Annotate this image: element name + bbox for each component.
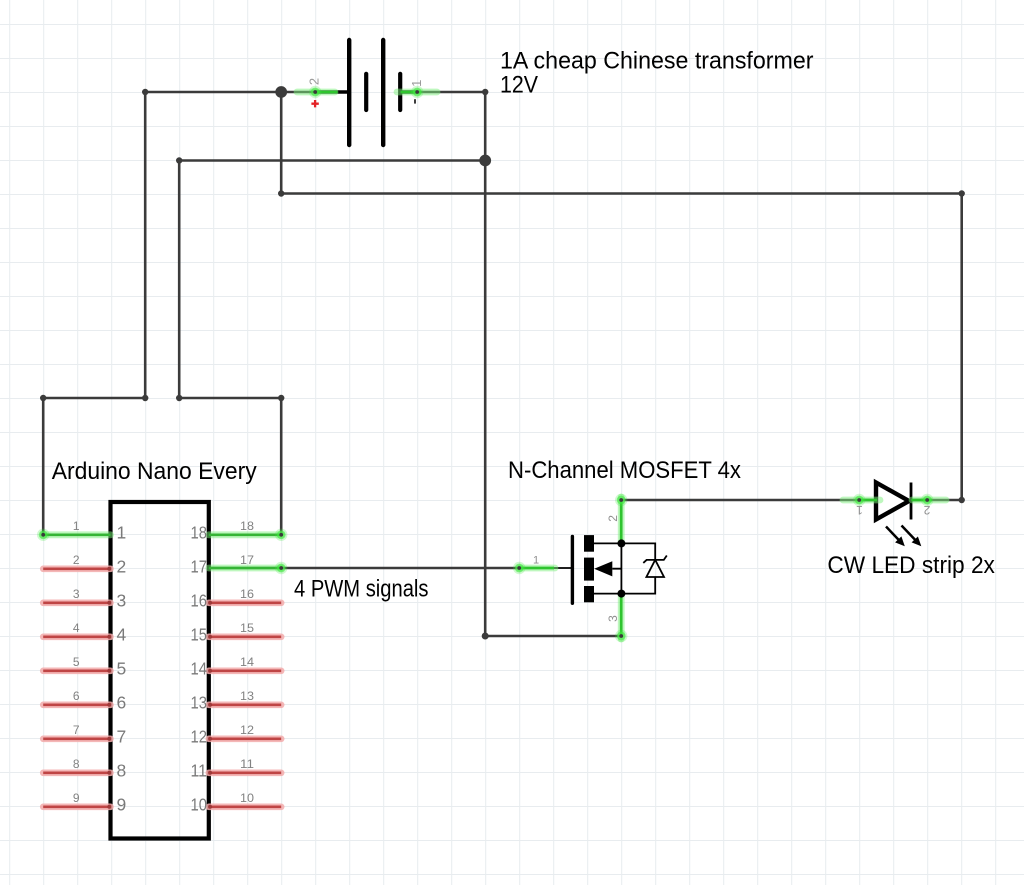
svg-text:14: 14 xyxy=(240,655,254,669)
svg-text:3: 3 xyxy=(117,591,127,611)
MOSFET Q1 source pin highlight (pin 3) xyxy=(615,594,627,643)
svg-text:15: 15 xyxy=(240,621,254,635)
svg-text:2: 2 xyxy=(73,553,80,567)
LED D1 cathode pin highlight (pin 2) xyxy=(911,494,946,506)
Arduino Nano Every U1 body xyxy=(111,502,209,839)
Arduino pin 7 stub (red, unconnected) xyxy=(43,737,111,741)
MOSFET Q1 gate lead xyxy=(519,567,572,569)
Arduino pin 1 stub (green, connected) xyxy=(37,529,111,541)
svg-text:1: 1 xyxy=(856,503,863,517)
MOSFET Q1 substrate arrow xyxy=(594,561,612,576)
svg-text:1: 1 xyxy=(533,555,539,567)
MOSFET Q1 gate bar xyxy=(571,537,574,604)
MOSFET Q1 drain lead xyxy=(594,542,621,544)
svg-text:CW LED strip 2x: CW LED strip 2x xyxy=(827,552,995,579)
battery polarity label - xyxy=(414,99,416,103)
svg-text:16: 16 xyxy=(240,587,254,601)
svg-text:4: 4 xyxy=(73,621,80,635)
svg-text:14: 14 xyxy=(191,659,208,679)
Arduino pin 12 stub (red, unconnected) xyxy=(208,737,281,741)
MOSFET Q1 gate pin highlight (pin 1) xyxy=(513,562,555,574)
svg-text:2: 2 xyxy=(606,515,620,522)
svg-text:3: 3 xyxy=(73,587,80,601)
svg-text:12V: 12V xyxy=(500,71,538,98)
MOSFET Q1 internal vertical xyxy=(612,543,621,593)
svg-text:1: 1 xyxy=(73,519,80,533)
svg-text:3: 3 xyxy=(606,615,620,622)
wire: MOSFET drain to LED anode xyxy=(621,499,859,502)
junction: battery + / +12V rail xyxy=(275,86,287,98)
svg-text:11: 11 xyxy=(191,761,208,781)
wire: battery + terminal to Arduino pin 1 xyxy=(40,89,315,535)
Arduino pin 9 stub (red, unconnected) xyxy=(43,805,111,809)
Arduino pin 13 stub (red, unconnected) xyxy=(208,703,281,707)
Arduino pin 17 stub (green, connected) xyxy=(209,562,288,574)
svg-text:9: 9 xyxy=(73,791,80,805)
svg-text:8: 8 xyxy=(73,757,80,771)
Arduino pin 3 stub (red, unconnected) xyxy=(43,601,111,605)
svg-text:4: 4 xyxy=(117,625,127,645)
svg-text:2: 2 xyxy=(117,557,127,577)
svg-text:11: 11 xyxy=(240,757,254,771)
svg-text:10: 10 xyxy=(191,795,208,815)
svg-text:2: 2 xyxy=(923,503,930,517)
svg-text:8: 8 xyxy=(117,761,127,781)
Arduino pin 8 stub (red, unconnected) xyxy=(43,771,111,775)
svg-text:2: 2 xyxy=(306,78,321,85)
Arduino pin 11 stub (red, unconnected) xyxy=(208,771,281,775)
svg-text:10: 10 xyxy=(240,791,254,805)
battery pin 2 connection highlight (+ terminal) xyxy=(297,86,338,98)
battery pin 1 connection highlight (- terminal) xyxy=(397,86,437,98)
svg-text:1A cheap Chinese transformer: 1A cheap Chinese transformer xyxy=(500,47,814,74)
MOSFET Q1 drain/source junction dots xyxy=(617,539,625,547)
svg-text:5: 5 xyxy=(73,655,80,669)
svg-text:1: 1 xyxy=(117,523,127,543)
svg-text:12: 12 xyxy=(240,723,254,737)
LED D1 anode pin highlight (pin 1) xyxy=(843,494,880,506)
Arduino pin 14 stub (red, unconnected) xyxy=(208,669,281,673)
svg-text:1: 1 xyxy=(409,80,424,87)
svg-text:9: 9 xyxy=(117,795,127,815)
svg-text:7: 7 xyxy=(73,723,80,737)
svg-text:17: 17 xyxy=(240,553,254,567)
wire: Arduino pin 17 to MOSFET gate xyxy=(281,567,519,570)
Arduino pin 6 stub (red, unconnected) xyxy=(43,703,111,707)
LED D1 emission arrows xyxy=(886,526,921,547)
svg-text:18: 18 xyxy=(240,519,254,533)
MOSFET Q1 channel segments xyxy=(584,535,594,602)
svg-text:4 PWM signals: 4 PWM signals xyxy=(294,576,429,603)
svg-text:16: 16 xyxy=(191,591,208,611)
svg-text:17: 17 xyxy=(191,557,208,577)
Arduino pin 18 stub (green, connected) xyxy=(209,529,288,541)
LED D1 cathode bar xyxy=(910,483,913,520)
wire: battery - terminal down to MOSFET source xyxy=(417,89,621,640)
svg-text:6: 6 xyxy=(73,689,80,703)
LED D1 leads xyxy=(859,499,927,501)
Arduino pin 15 stub (red, unconnected) xyxy=(208,635,281,639)
MOSFET Q1 drain pin highlight (pin 2) xyxy=(615,494,627,544)
svg-text:15: 15 xyxy=(191,625,208,645)
wire: +12V rail from battery + junction to LED cathode xyxy=(278,92,965,503)
svg-text:N-Channel MOSFET 4x: N-Channel MOSFET 4x xyxy=(508,457,741,484)
wire: Arduino pin 18 to GND rail xyxy=(176,157,485,535)
svg-text:6: 6 xyxy=(117,693,127,713)
svg-text:13: 13 xyxy=(191,693,208,713)
svg-text:5: 5 xyxy=(117,659,127,679)
svg-text:13: 13 xyxy=(240,689,254,703)
Arduino pin 16 stub (red, unconnected) xyxy=(208,601,281,605)
Arduino pin 4 stub (red, unconnected) xyxy=(43,635,111,639)
MOSFET Q1 source lead xyxy=(594,593,621,595)
svg-text:18: 18 xyxy=(191,523,208,543)
MOSFET Q1 body diode (zener) xyxy=(621,543,666,593)
Arduino pin 10 stub (red, unconnected) xyxy=(208,805,281,809)
junction: GND rail joins battery - wire xyxy=(479,155,491,167)
svg-text:Arduino Nano Every: Arduino Nano Every xyxy=(52,458,257,485)
Arduino pin 2 stub (red, unconnected) xyxy=(43,567,111,571)
battery polarity label + xyxy=(311,100,318,107)
svg-text:7: 7 xyxy=(117,727,127,747)
Arduino pin 5 stub (red, unconnected) xyxy=(43,669,111,673)
svg-text:12: 12 xyxy=(191,727,208,747)
battery B1 (12V transformer) xyxy=(315,40,417,145)
LED D1 triangle xyxy=(876,483,909,520)
